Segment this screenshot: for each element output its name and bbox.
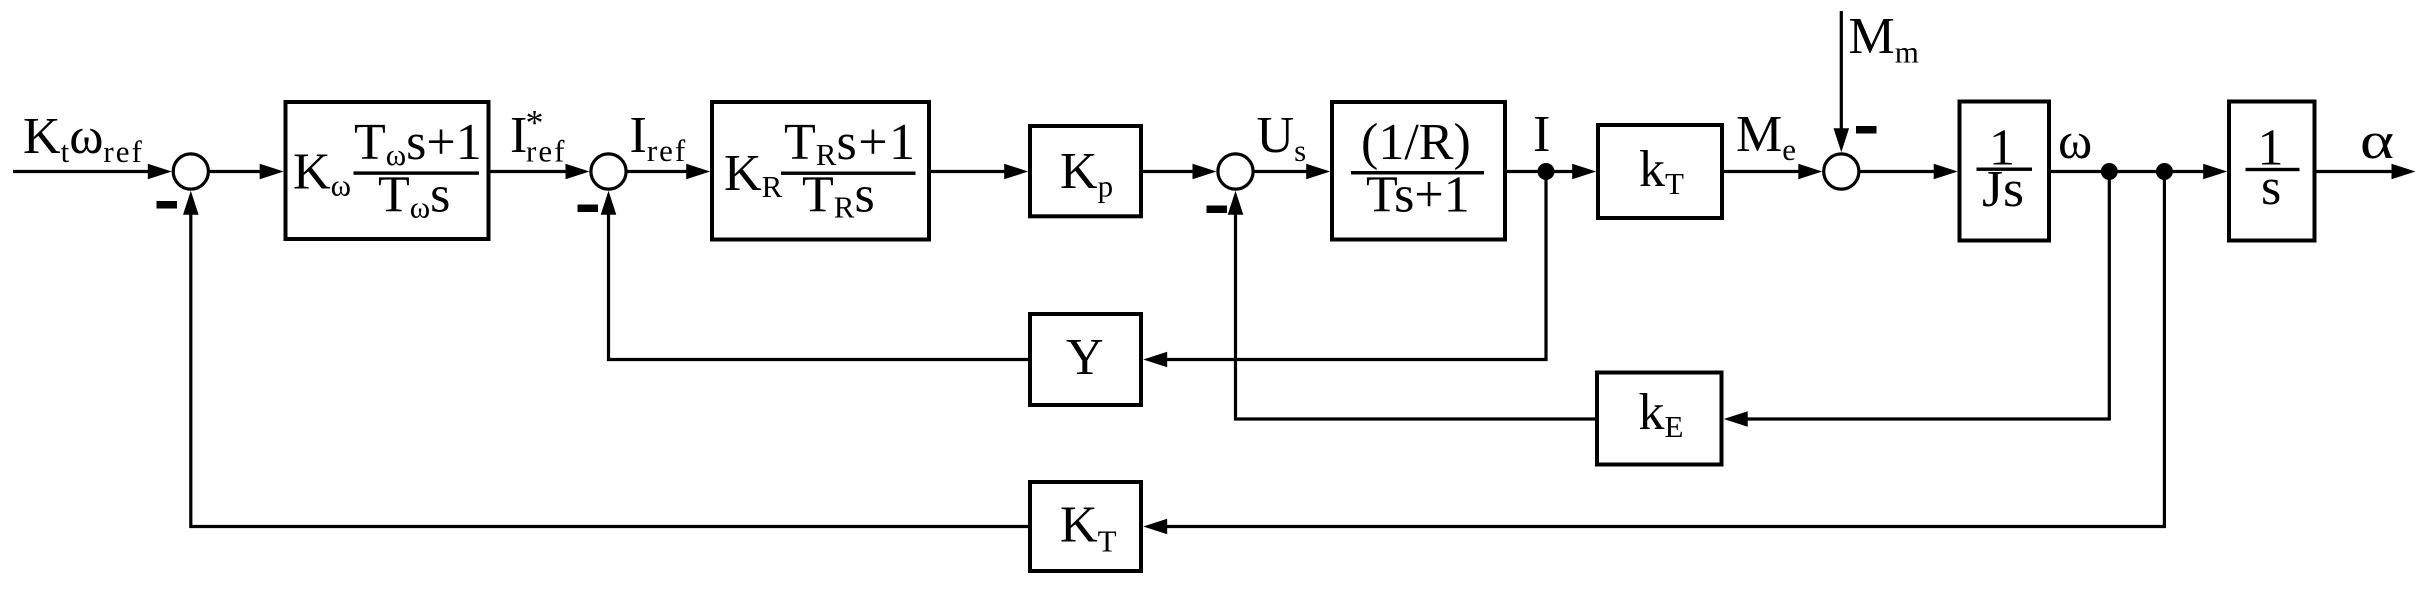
summing junction S4 xyxy=(1824,154,1859,189)
svg-text:Js: Js xyxy=(1982,161,2024,218)
arrowhead left into kE xyxy=(1724,411,1748,427)
block B2 current regulator xyxy=(712,102,929,240)
wire B2 to B3 xyxy=(931,170,1008,173)
wire kE output to S3 xyxy=(1236,213,1596,419)
block B2 fraction bar xyxy=(781,172,916,175)
block Y current feedback xyxy=(1030,314,1141,405)
svg-text:Y: Y xyxy=(1066,329,1104,386)
arrowhead Mm into S4 top xyxy=(1834,128,1850,152)
svg-text:TRs+1: TRs+1 xyxy=(784,114,917,172)
block B1 speed regulator xyxy=(286,102,489,239)
wire Mm drop into S4 xyxy=(1840,11,1843,130)
wire node w1 down and into kE xyxy=(1747,172,2109,420)
arrowhead into B6 xyxy=(1934,164,1958,180)
wire S4 to B6 xyxy=(1860,170,1937,173)
block B7 fraction bar xyxy=(2246,168,2300,171)
arrowhead into B7 xyxy=(2203,164,2227,180)
block kE emf feedback xyxy=(1597,373,1722,465)
arrowhead output xyxy=(2392,164,2416,180)
wire node I down and into Y xyxy=(1167,172,1546,360)
svg-text:Tωs+1: Tωs+1 xyxy=(354,114,482,172)
node w2 junction dot xyxy=(2156,163,2173,180)
wire input to S1 xyxy=(13,170,152,173)
wire B4 to B5 via node I xyxy=(1507,170,1576,173)
wire S1 to B1 xyxy=(209,170,263,173)
wire node w2 down and into KT xyxy=(1167,172,2164,527)
wire B5 to S4 xyxy=(1724,170,1802,173)
wire S2 to B2 xyxy=(627,170,690,173)
arrowhead up into S3 bottom xyxy=(1228,191,1244,215)
block B6 1/Js xyxy=(1960,102,2050,241)
node I junction dot xyxy=(1538,163,1555,180)
arrowhead into B3 xyxy=(1004,164,1028,180)
svg-text:Ts+1: Ts+1 xyxy=(1366,167,1470,224)
arrowhead into B4 xyxy=(1306,164,1330,180)
arrowhead into B2 xyxy=(686,164,710,180)
block B6 fraction bar xyxy=(1977,168,2033,171)
svg-text:(1/R): (1/R) xyxy=(1361,114,1471,171)
wire B1 to S2 xyxy=(490,170,569,173)
arrowhead into B5 xyxy=(1572,164,1596,180)
arrowhead into B1 xyxy=(260,164,284,180)
summing junction S1 xyxy=(173,154,208,189)
block KT speed feedback xyxy=(1030,482,1141,571)
node w1 junction dot xyxy=(2101,163,2118,180)
block B1 fraction bar xyxy=(354,171,480,174)
arrowhead up into S2 bottom xyxy=(601,191,617,215)
summing junction S3 xyxy=(1218,154,1253,189)
arrowhead into S4 xyxy=(1798,164,1822,180)
arrowhead left into Y xyxy=(1143,352,1167,368)
arrowhead into S3 xyxy=(1193,164,1217,180)
svg-text:s: s xyxy=(2261,159,2281,216)
minus sign at S3 xyxy=(1207,206,1228,214)
svg-text:I: I xyxy=(1533,106,1550,163)
arrowhead into S1 xyxy=(148,164,172,180)
wire B7 to output xyxy=(2316,170,2393,173)
minus sign at S4 xyxy=(1856,126,1877,134)
wire Y output to S2 xyxy=(609,213,1029,360)
svg-text:ref: ref xyxy=(526,134,566,169)
wire S3 to B4 xyxy=(1254,170,1310,173)
wire B6 to B7 via nodes xyxy=(2051,170,2207,173)
arrowhead into S2 xyxy=(566,164,590,180)
block B4 fraction bar xyxy=(1351,171,1484,175)
minus sign at S2 xyxy=(578,205,599,213)
block B3 Kp xyxy=(1030,126,1141,216)
minus sign at S1 xyxy=(157,201,178,209)
block B4 motor electrical xyxy=(1332,102,1505,240)
wire B3 to S3 xyxy=(1143,170,1196,173)
svg-text:α: α xyxy=(2360,112,2394,169)
summing junction S2 xyxy=(591,154,626,189)
arrowhead left into KT xyxy=(1143,519,1167,535)
svg-text:ω: ω xyxy=(2058,113,2092,170)
arrowhead up into S1 bottom xyxy=(183,191,199,215)
block B7 1/s xyxy=(2229,102,2315,241)
wire KT output to S1 xyxy=(191,213,1028,527)
block B5 kT xyxy=(1598,125,1722,218)
